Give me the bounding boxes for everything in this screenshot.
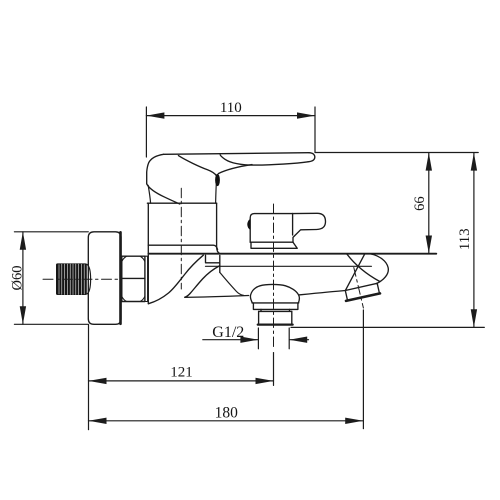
- dim 110 line: [146, 115, 315, 117]
- dim 110 extension lines: [146, 107, 315, 157]
- collar centerline: [180, 188, 182, 289]
- handle lever: [164, 153, 315, 204]
- knob pivot mark: [247, 219, 250, 230]
- threaded pipe: [56, 263, 91, 295]
- wall flange thick right edge: [119, 232, 122, 323]
- dim G12 arrows: [240, 337, 307, 343]
- dim 110 arrows: [146, 112, 315, 118]
- dim 60 extension lines: [14, 232, 88, 324]
- wall extension line: [88, 325, 90, 430]
- shower outlet extension: [362, 310, 364, 429]
- svg-text:180: 180: [215, 404, 239, 421]
- pipe centerline: [43, 278, 120, 280]
- dim 66 arrows: [426, 153, 432, 254]
- collar base steps: [206, 255, 220, 272]
- barrel underside: [185, 296, 249, 298]
- dim G12 leader line: [203, 339, 309, 341]
- dim 113 arrows: [471, 153, 477, 328]
- spout dome: [250, 284, 299, 324]
- svg-text:G1/2: G1/2: [212, 324, 244, 341]
- barrel top: [148, 253, 436, 255]
- dim 66 line: [428, 153, 430, 254]
- spout center extension: [273, 353, 275, 386]
- dim G12 ticks: [258, 328, 289, 349]
- barrel inner line: [206, 265, 372, 267]
- dim 121 line: [89, 380, 274, 382]
- dim 113 line: [473, 153, 475, 328]
- cartridge collar: [147, 203, 243, 304]
- handle pivot lens: [215, 174, 220, 186]
- dim 180 arrows: [89, 418, 364, 424]
- svg-text:Ø60: Ø60: [10, 266, 26, 291]
- washer: [145, 256, 148, 301]
- diverter knob: [247, 213, 325, 248]
- outlet axis: [354, 268, 364, 309]
- dim 60 arrows: [20, 232, 26, 324]
- dim 180 line: [89, 420, 364, 422]
- svg-text:113: 113: [457, 228, 473, 250]
- handshower fitting: [345, 283, 380, 301]
- svg-text:110: 110: [220, 100, 242, 116]
- dim 121 arrows: [89, 378, 274, 384]
- top extension line to right: [315, 152, 478, 154]
- wall flange: [88, 232, 121, 324]
- svg-text:121: 121: [170, 365, 193, 381]
- hex nut: [122, 256, 145, 301]
- shower outlet neck: [347, 254, 380, 281]
- dim 113 bottom extension: [291, 326, 484, 328]
- dim 60 line: [22, 232, 24, 324]
- collar foot arc: [149, 255, 204, 304]
- svg-text:66: 66: [412, 196, 428, 211]
- aerator thick bottom: [258, 323, 293, 325]
- spout centerline: [273, 204, 275, 347]
- barrel right cap: [371, 254, 388, 284]
- handle grip: [147, 154, 180, 204]
- drawing groups inserted below: [43, 153, 436, 347]
